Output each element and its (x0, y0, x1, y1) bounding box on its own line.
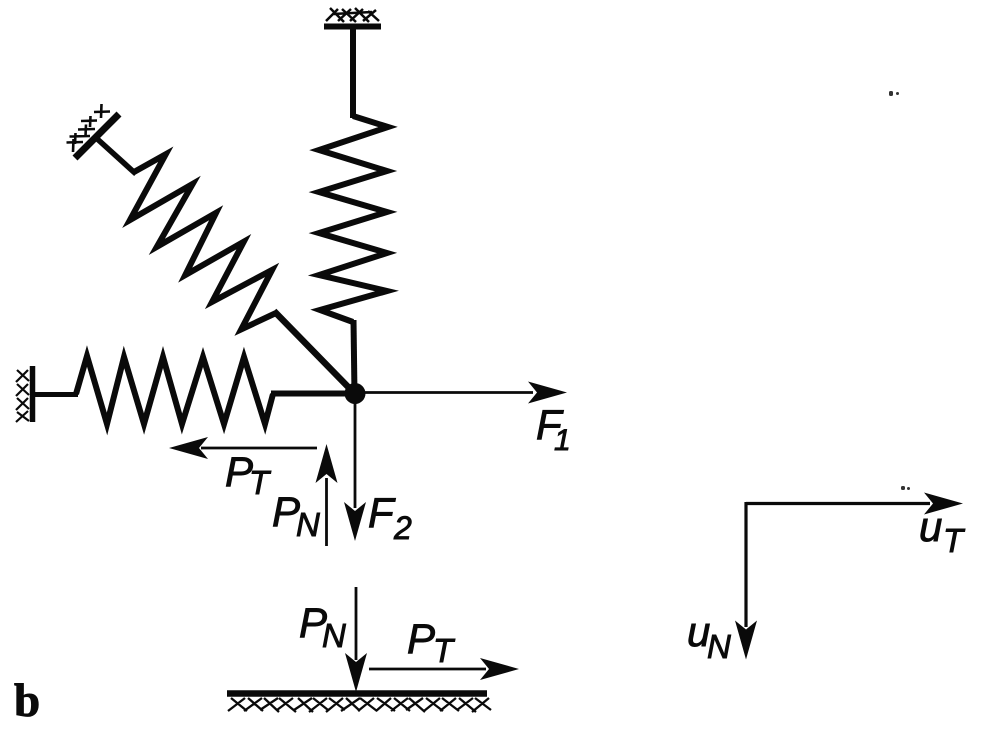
wire: top anchor to vertical spring (350, 27, 356, 118)
label uN (687, 608, 731, 665)
axis arrow uN (unit vector, vertical) (735, 502, 757, 660)
force arrow F1 (to the right from node) (360, 382, 567, 404)
node (particle, junction of springs) (345, 383, 366, 404)
svg-text:u: u (919, 503, 942, 550)
label PT (bottom) (407, 615, 456, 669)
ground surface line (227, 690, 487, 697)
label PN (centre) (272, 488, 320, 543)
spring (diagonal coil) (130, 154, 276, 329)
wall anchor (left, fixed support of horizontal spring) (16, 366, 33, 422)
wire: left wall to horizontal spring (33, 392, 78, 397)
spring (vertical coil) (319, 116, 388, 322)
reaction arrow PT (rightward along ground) (369, 658, 519, 680)
svg-text:T: T (943, 522, 966, 559)
axis arrow uT (unit vector, horizontal) (746, 493, 963, 515)
ground hatching (228, 698, 491, 712)
wire: diagonal spring to node (274, 311, 356, 395)
scan speck (top right) (889, 91, 899, 96)
svg-text:T: T (433, 632, 456, 669)
wire: diagonal anchor to diagonal spring (94, 136, 136, 174)
svg-text:N: N (296, 506, 320, 543)
wall anchor (top, fixed support of vertical spring) (324, 8, 381, 27)
wire: vertical spring to node (354, 320, 355, 394)
svg-text:T: T (249, 464, 272, 501)
label PN (bottom) (299, 599, 346, 654)
svg-text:F: F (368, 489, 396, 536)
svg-text:N: N (707, 628, 731, 665)
svg-text:N: N (322, 617, 346, 654)
label uT (919, 503, 966, 559)
label PT (centre) (225, 448, 272, 501)
wall anchor (upper-left, fixed support of diagonal spring) (67, 104, 120, 158)
force arrow PT (leftward, below horizontal spring) (169, 437, 317, 459)
svg-text:P: P (407, 615, 435, 662)
label F2 (368, 489, 412, 546)
reaction arrow PN (downward onto ground) (345, 587, 367, 692)
force arrow F2 (downward from node) (344, 400, 366, 541)
wire: horizontal spring to node (271, 391, 356, 397)
svg-text:1: 1 (554, 424, 571, 457)
svg-text:b: b (14, 675, 40, 727)
force arrow PN (upward, left of F2) (316, 444, 338, 546)
label F1 (536, 401, 571, 457)
svg-text:2: 2 (393, 510, 412, 546)
scan speck (above uT arrow) (901, 486, 910, 490)
spring (horizontal coil) (76, 356, 273, 424)
